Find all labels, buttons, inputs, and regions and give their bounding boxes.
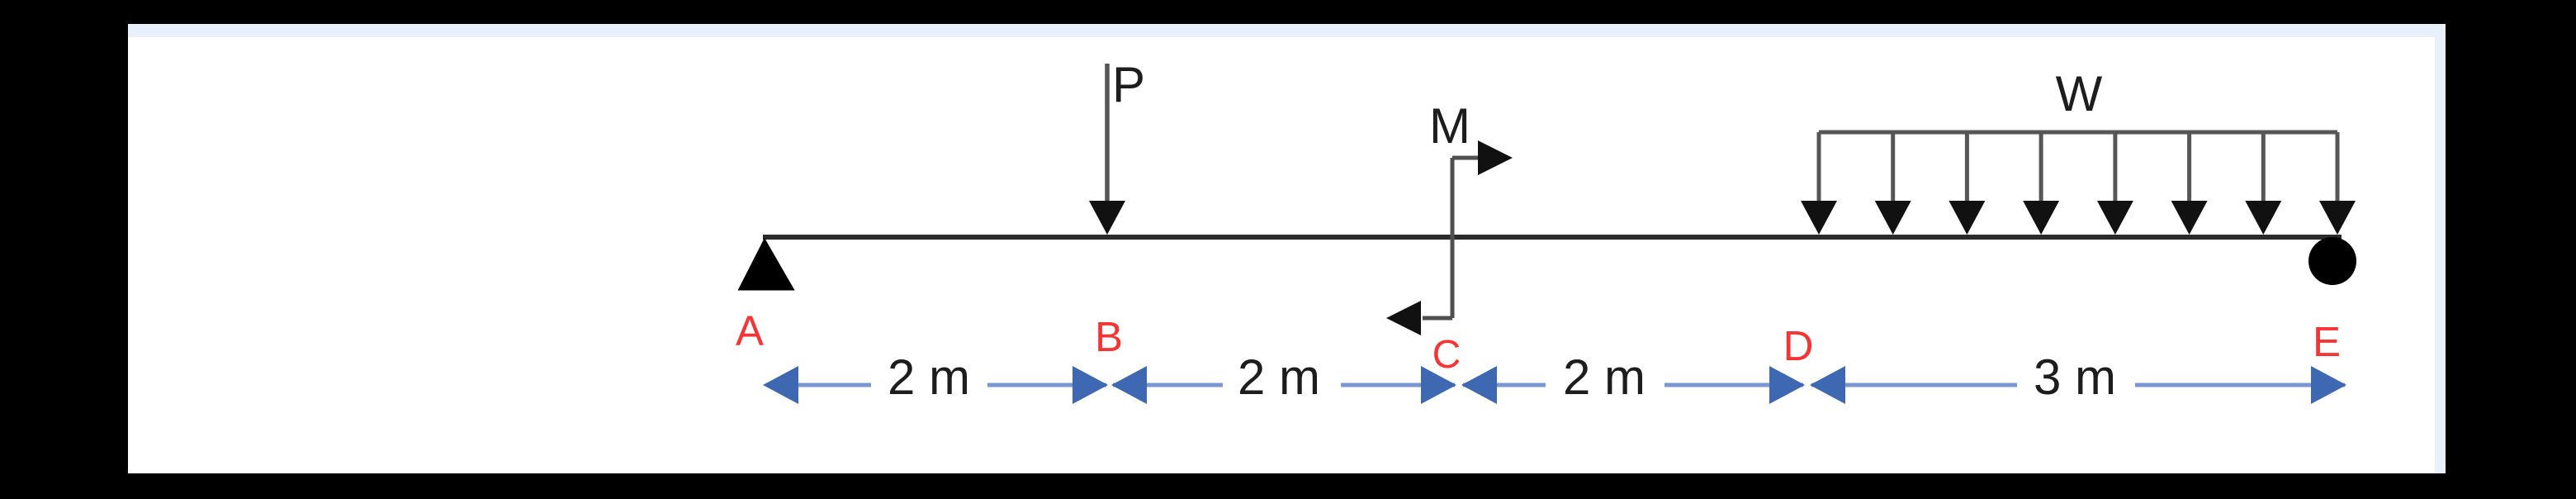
dimension arrow from D (left-pointing) <box>1810 366 1845 404</box>
pinned support at A (triangle) <box>740 240 793 289</box>
svg-text:W: W <box>2056 66 2103 121</box>
svg-text:3 m: 3 m <box>2034 349 2116 405</box>
dimension arrow into E (right) <box>2311 366 2346 404</box>
light blue right strip <box>2435 24 2446 473</box>
svg-text:M: M <box>1429 98 1470 154</box>
svg-text:D: D <box>1783 322 1814 369</box>
dimension arrow into B (right) <box>1073 366 1108 404</box>
roller support at E (circle) <box>2308 237 2356 285</box>
svg-text:C: C <box>1432 333 1461 377</box>
svg-text:P: P <box>1112 57 1145 112</box>
dimension line B-C <box>1113 383 1455 387</box>
svg-text:E: E <box>2313 318 2341 365</box>
dimension arrow into C (right) <box>1421 366 1456 404</box>
svg-text:A: A <box>736 307 764 354</box>
dimension arrow from B (left-pointing) <box>1111 366 1147 404</box>
svg-text:B: B <box>1095 313 1123 360</box>
distributed load W (8 arrows under top bar) <box>1819 132 2337 203</box>
dimension line C-D <box>1463 383 1803 387</box>
dimension line A-B <box>766 383 1106 387</box>
dimension arrow into D (right) <box>1769 366 1805 404</box>
moment M at C (Z-shaped double arrow) <box>1386 140 1513 335</box>
dimension line D-E <box>1811 383 2345 387</box>
dimension arrow at A (left) <box>763 366 798 404</box>
point load P arrow <box>1089 64 1125 235</box>
svg-text:2 m: 2 m <box>1563 349 1646 405</box>
svg-text:2 m: 2 m <box>1238 349 1320 405</box>
light blue top strip <box>128 24 2446 37</box>
svg-text:2 m: 2 m <box>888 349 970 405</box>
beam A-E <box>763 235 2342 240</box>
dimension arrow from C (left-pointing) <box>1461 366 1497 404</box>
